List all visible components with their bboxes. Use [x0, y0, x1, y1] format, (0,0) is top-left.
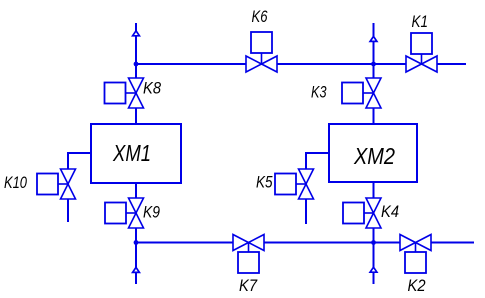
svg-text:K5: K5	[256, 173, 273, 192]
svg-text:K3: K3	[311, 83, 327, 102]
svg-text:K1: K1	[412, 12, 429, 31]
svg-text:XM1: XM1	[112, 140, 151, 166]
svg-text:XM2: XM2	[353, 143, 395, 169]
svg-text:K10: K10	[4, 173, 27, 192]
svg-text:K4: K4	[381, 202, 399, 221]
svg-text:K7: K7	[239, 276, 257, 295]
svg-text:K8: K8	[143, 79, 161, 98]
svg-text:K2: K2	[408, 276, 426, 295]
svg-text:K6: K6	[252, 7, 268, 26]
svg-text:K9: K9	[143, 203, 160, 222]
